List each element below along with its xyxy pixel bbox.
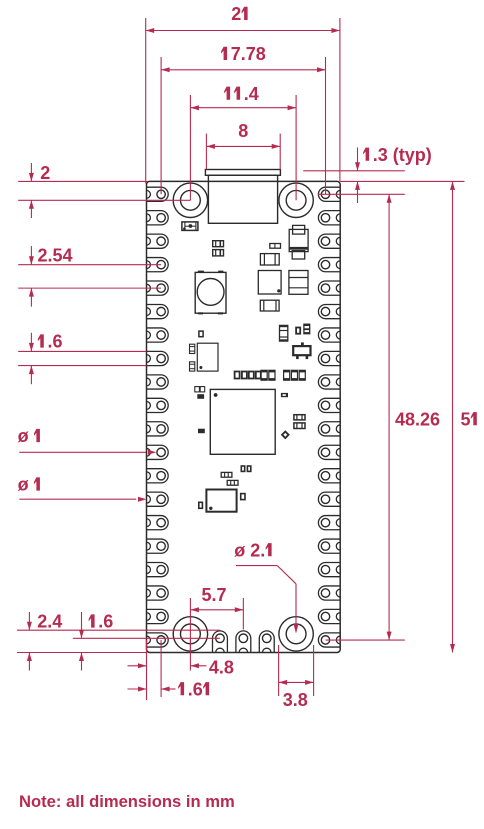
svg-text:.6: .6: [48, 332, 63, 352]
svg-text:7.78: 7.78: [231, 44, 266, 64]
svg-text:5: 5: [461, 409, 471, 429]
svg-text:2.54: 2.54: [38, 246, 73, 266]
svg-text:5.7: 5.7: [201, 585, 226, 605]
svg-text:48.26: 48.26: [395, 409, 440, 429]
svg-text:ø: ø: [18, 475, 29, 495]
svg-text:8: 8: [238, 121, 248, 141]
svg-text:.6: .6: [98, 612, 113, 632]
svg-text:Note: all dimensions in mm: Note: all dimensions in mm: [19, 792, 235, 811]
svg-text:3.8: 3.8: [283, 690, 308, 710]
svg-text:.3 (typ): .3 (typ): [373, 145, 432, 165]
svg-text:ø 2.: ø 2.: [234, 540, 265, 560]
svg-text:ø: ø: [18, 426, 29, 446]
svg-text:.6: .6: [188, 679, 203, 699]
svg-text:2: 2: [231, 4, 241, 24]
svg-text:2: 2: [40, 163, 50, 183]
svg-text:.4: .4: [244, 84, 259, 104]
svg-text:2.4: 2.4: [37, 612, 62, 632]
svg-text:4.8: 4.8: [209, 657, 234, 677]
